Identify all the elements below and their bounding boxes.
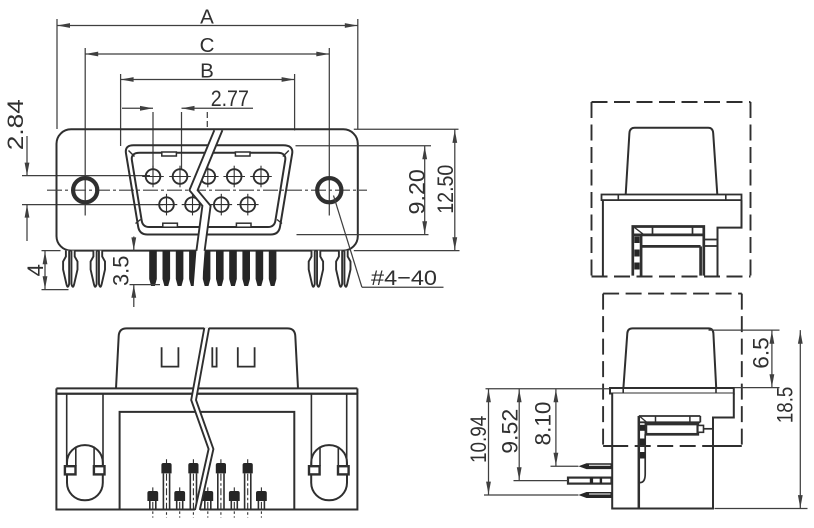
svg-text:10.94: 10.94 <box>466 416 491 463</box>
svg-text:A: A <box>200 5 214 28</box>
svg-text:6.5: 6.5 <box>748 337 773 369</box>
svg-text:2.84: 2.84 <box>3 99 28 150</box>
svg-text:8.10: 8.10 <box>531 402 556 446</box>
svg-text:9.52: 9.52 <box>498 409 523 454</box>
svg-text:#4−40: #4−40 <box>371 266 437 290</box>
svg-text:9.20: 9.20 <box>404 169 429 214</box>
svg-text:18.5: 18.5 <box>773 387 798 424</box>
svg-text:B: B <box>200 59 214 82</box>
svg-text:4: 4 <box>23 264 48 276</box>
svg-text:12.50: 12.50 <box>433 165 458 214</box>
svg-text:C: C <box>200 34 215 57</box>
svg-text:3.5: 3.5 <box>109 256 134 286</box>
svg-text:2.77: 2.77 <box>211 86 249 111</box>
